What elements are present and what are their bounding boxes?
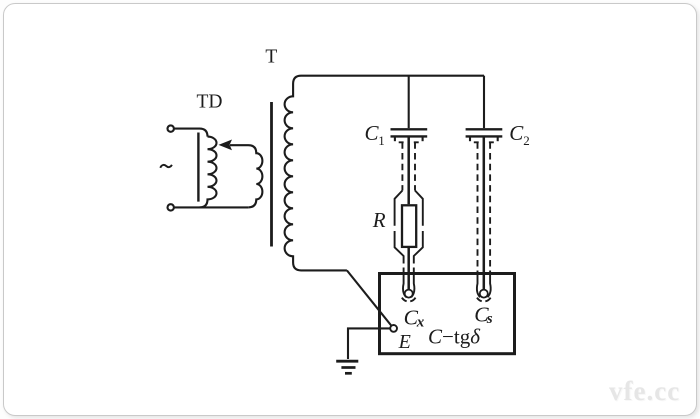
transformer T winding + top wire + bottom wire bbox=[285, 76, 484, 271]
svg-text:C: C bbox=[509, 121, 524, 145]
svg-text:1: 1 bbox=[378, 133, 385, 148]
svg-text:vfe.cc: vfe.cc bbox=[609, 376, 680, 406]
connector Cx circle bbox=[405, 290, 413, 298]
TD core bar bbox=[197, 133, 199, 202]
svg-text:s: s bbox=[486, 311, 493, 327]
connector Cs circle bbox=[480, 290, 488, 298]
capacitor C1 plates bbox=[391, 128, 428, 130]
terminal E bbox=[390, 325, 397, 332]
TD secondary winding bbox=[230, 145, 262, 207]
C1 shield feet bbox=[399, 141, 419, 143]
svg-text:TD: TD bbox=[197, 91, 223, 112]
transformer TD primary winding bbox=[200, 137, 217, 208]
C2 guard ticks bbox=[469, 138, 471, 142]
wire top terminal to TD winding bbox=[174, 129, 208, 137]
C1 guard ticks bbox=[394, 138, 396, 142]
wire diagonal from T bottom to E bbox=[347, 270, 391, 325]
svg-text:R: R bbox=[372, 208, 386, 232]
C2 shield dashed bbox=[478, 142, 491, 270]
C1 conductor upper bbox=[407, 138, 410, 205]
wire E to ground bbox=[348, 328, 390, 359]
terminal bottom-left bbox=[168, 204, 174, 210]
svg-text:E: E bbox=[398, 331, 411, 353]
terminal top-left bbox=[168, 125, 174, 131]
svg-text:T: T bbox=[265, 46, 277, 67]
bridge box C-tgd bbox=[380, 274, 515, 354]
wire top to C2 bbox=[483, 76, 485, 128]
svg-text:2: 2 bbox=[523, 133, 530, 148]
conductor below R bbox=[407, 247, 410, 289]
connector Cx dashed arc bbox=[402, 298, 416, 302]
tap arrow bbox=[219, 140, 233, 151]
C1 shield dashed upper bbox=[402, 142, 415, 190]
C2 shield feet bbox=[474, 141, 494, 143]
R shield flare left bbox=[395, 191, 407, 298]
svg-text:C−tgδ: C−tgδ bbox=[428, 325, 481, 349]
capacitor C2 plates bbox=[466, 128, 503, 130]
resistor R body bbox=[402, 205, 416, 247]
wire bottom bbox=[174, 206, 248, 208]
transformer T core bar bbox=[270, 102, 273, 247]
R shield flare right bbox=[411, 191, 423, 298]
AC source tilde bbox=[160, 165, 172, 168]
C2 conductor bbox=[483, 138, 486, 290]
ground bbox=[336, 360, 358, 363]
C2 shield below box bbox=[477, 271, 491, 298]
svg-text:x: x bbox=[416, 315, 425, 331]
wire top junction to C1 bbox=[408, 76, 410, 128]
connector Cs dashed arc bbox=[477, 298, 491, 302]
